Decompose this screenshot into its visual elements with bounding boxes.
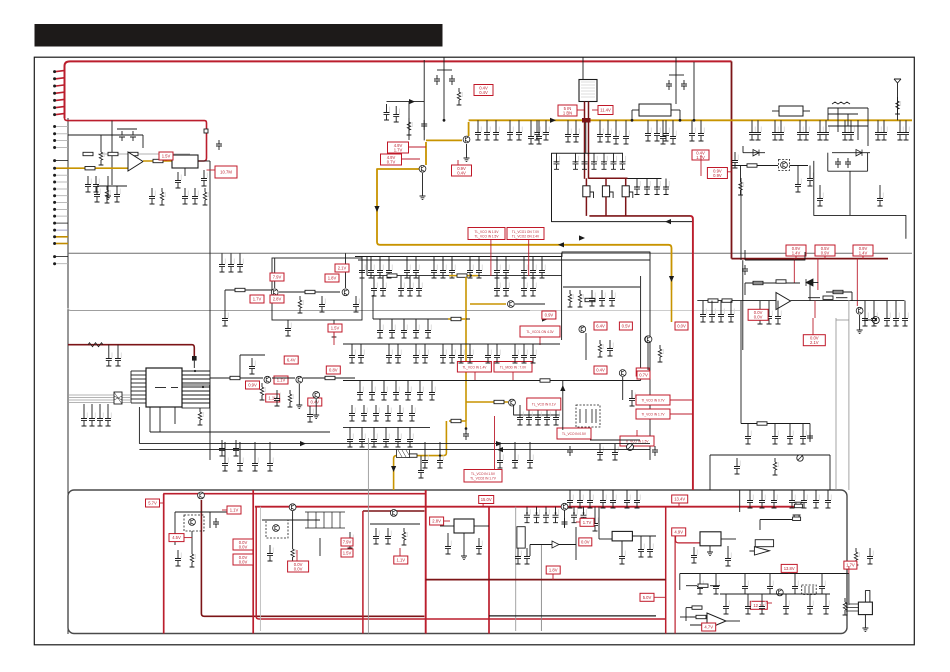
wire	[809, 166, 811, 171]
wire label lead	[402, 158, 421, 160]
wire	[886, 301, 888, 310]
wire	[274, 258, 276, 288]
wire label lead	[399, 548, 401, 556]
wire	[91, 404, 93, 410]
wire yellow AGC loop	[377, 172, 672, 290]
connector pin J13	[53, 167, 56, 170]
wire IC pin	[131, 402, 146, 404]
voltage label 2.8V	[270, 295, 284, 303]
capacitor C19	[219, 440, 225, 456]
wire yellow riser	[426, 140, 462, 165]
wire	[98, 153, 190, 155]
capacitor C1	[119, 131, 125, 141]
svg-text:2.8V: 2.8V	[432, 519, 441, 524]
transistor Q12	[645, 336, 652, 343]
svg-text:6.4V: 6.4V	[287, 358, 296, 363]
wire	[621, 541, 623, 548]
resistor R16	[457, 88, 463, 105]
connector pin J23	[53, 235, 56, 238]
capacitor C158	[429, 384, 435, 400]
wire	[495, 120, 497, 124]
capacitor C57	[613, 128, 619, 144]
capacitor C206	[445, 538, 451, 554]
capacitor C127	[416, 280, 422, 296]
capacitor C230	[771, 492, 777, 508]
wire	[514, 405, 560, 415]
capacitor C44	[554, 153, 560, 169]
wire	[747, 424, 749, 429]
wire label lead	[670, 413, 693, 415]
wire IC pin	[182, 382, 210, 384]
capacitor C233	[813, 492, 819, 508]
wire osc block frame	[552, 153, 693, 221]
capacitor C63	[645, 125, 651, 141]
ground	[862, 628, 868, 632]
op-amp U1	[128, 152, 143, 171]
wire label lead	[184, 537, 192, 539]
capacitor C75	[823, 124, 829, 140]
wire dark-red	[625, 178, 627, 186]
capacitor C108	[368, 262, 374, 278]
junction	[202, 386, 204, 388]
wire	[665, 120, 667, 125]
wire IC pin	[182, 370, 210, 372]
voltage label 0.9V|1.4V	[853, 245, 873, 256]
capacitor C43	[605, 126, 611, 142]
resistor R33	[451, 419, 461, 422]
junction	[646, 186, 648, 188]
wire	[761, 490, 763, 492]
junction bus	[693, 119, 696, 122]
wire	[649, 536, 651, 541]
wire	[382, 276, 384, 280]
wire	[442, 257, 444, 263]
wire	[159, 407, 161, 432]
signal arrow	[665, 219, 671, 224]
wire	[864, 319, 872, 321]
wire label lead	[207, 169, 216, 171]
signal arrow	[579, 235, 585, 240]
wire main audio line	[697, 300, 776, 302]
wire	[437, 69, 452, 71]
voltage label 0.8V	[326, 366, 340, 374]
wire	[669, 74, 684, 76]
connector pin J8	[53, 125, 56, 128]
resistor R42	[288, 390, 294, 407]
capacitor C141	[413, 347, 419, 363]
wire	[675, 57, 677, 104]
wire	[99, 404, 101, 410]
svg-text:TL_VCO IN 1.5V: TL_VCO IN 1.5V	[475, 234, 500, 238]
resistor R35	[568, 290, 574, 307]
wire dark-red	[605, 178, 607, 186]
capacitor C46	[582, 153, 588, 169]
wire red drop	[856, 259, 858, 306]
wire	[819, 185, 821, 190]
resistor R21	[823, 296, 833, 299]
wire gray top	[836, 319, 849, 321]
wire	[691, 120, 693, 125]
wire label lead	[862, 256, 864, 259]
ground	[296, 405, 302, 409]
capacitor C214	[515, 548, 521, 564]
wire	[693, 62, 695, 120]
wire	[439, 442, 441, 452]
resistor R4	[85, 167, 95, 170]
voltage label 1.5V	[328, 324, 342, 332]
capacitor C121	[530, 262, 536, 278]
signal arrow up	[560, 385, 565, 391]
signal arrow	[409, 99, 415, 104]
resistor R41	[260, 383, 266, 400]
svg-text:0.8V: 0.8V	[329, 368, 338, 373]
capacitor C119	[503, 262, 509, 278]
capacitor C21	[219, 256, 225, 272]
capacitor C116	[467, 262, 473, 278]
capacitor C38	[534, 124, 540, 140]
wire crimson to reg	[676, 536, 701, 543]
svg-text:1.7V: 1.7V	[583, 520, 592, 525]
connector pin J7	[53, 113, 56, 116]
wire	[799, 120, 801, 124]
wire	[773, 490, 775, 492]
wire	[867, 153, 869, 172]
wire	[240, 354, 265, 356]
connector pin J3	[53, 85, 56, 88]
junction olive	[465, 427, 468, 430]
voltage label 5.7V	[636, 368, 649, 376]
svg-text:1.7V: 1.7V	[253, 297, 262, 302]
wire	[749, 490, 751, 492]
junction bus	[584, 119, 587, 122]
svg-text:5.0V: 5.0V	[643, 595, 652, 600]
resistor R44	[190, 550, 196, 567]
wire	[509, 120, 511, 124]
title bar	[35, 24, 443, 47]
svg-text:5.7V: 5.7V	[148, 501, 157, 506]
voltage label 0.5V	[619, 322, 632, 330]
bottom section frame	[68, 490, 847, 634]
IF transformer T4 (dashed)	[576, 405, 600, 427]
wire dark-red vcc	[68, 345, 194, 356]
voltage label TI_VCO	[636, 395, 670, 405]
wire	[640, 536, 642, 541]
wire gray rail2	[848, 300, 850, 490]
wire	[599, 120, 601, 126]
resistor R3	[128, 152, 138, 155]
junction	[439, 454, 441, 456]
svg-text:0.4V: 0.4V	[457, 170, 466, 175]
wire	[585, 333, 587, 360]
wire	[366, 257, 368, 276]
svg-text:4.5V: 4.5V	[172, 535, 181, 540]
resistor R22	[708, 299, 718, 302]
resistor R20	[722, 299, 732, 302]
wire	[844, 120, 846, 124]
wire	[631, 110, 633, 120]
wire	[686, 585, 697, 587]
wire label lead	[296, 550, 298, 561]
wire	[905, 120, 907, 124]
capacitor C41	[573, 126, 579, 142]
capacitor C33	[475, 124, 481, 140]
capacitor C126	[407, 280, 413, 296]
resistor R27	[757, 422, 767, 425]
capacitor C88	[877, 190, 883, 206]
junction	[555, 512, 557, 514]
connector pin J11	[53, 146, 56, 149]
wire label lead	[409, 146, 427, 148]
wire	[744, 283, 746, 295]
connector pin J4	[53, 92, 56, 95]
capacitor C175	[535, 409, 541, 425]
transistor Q20	[390, 510, 397, 517]
transistor Q5	[781, 162, 788, 169]
capacitor C232	[801, 492, 807, 508]
wire	[518, 120, 520, 124]
wire	[849, 171, 851, 215]
voltage label 4.9V|1.7V	[388, 142, 409, 153]
wire label lead	[795, 256, 797, 259]
wire	[221, 253, 223, 256]
wire label lead	[482, 504, 484, 507]
capacitor C185	[249, 358, 255, 374]
capacitor C72	[797, 124, 803, 140]
wire label lead	[165, 160, 167, 161]
wire	[802, 424, 804, 429]
transistor Q14	[296, 376, 303, 383]
wire	[530, 120, 532, 128]
wire	[385, 427, 387, 431]
wire	[373, 427, 375, 431]
capacitor C156	[405, 384, 411, 400]
wire red drop	[490, 240, 492, 277]
wire gray rail cell2	[259, 507, 261, 631]
transistor Q17	[189, 519, 196, 526]
wire	[589, 490, 591, 492]
wire	[774, 120, 776, 124]
wire	[422, 173, 424, 196]
svg-text:1.4V: 1.4V	[859, 250, 868, 255]
wire	[625, 120, 627, 128]
resistor R26	[833, 290, 843, 293]
wire	[743, 152, 765, 154]
wire	[679, 110, 681, 120]
wire	[873, 301, 875, 310]
junction	[665, 186, 667, 188]
capacitor C191	[437, 452, 443, 468]
dashed pair box2	[266, 520, 288, 538]
capacitor C217	[592, 515, 598, 531]
svg-text:12.1V: 12.1V	[753, 603, 764, 608]
svg-text:4.7V: 4.7V	[704, 625, 713, 630]
wire	[433, 257, 435, 263]
capacitor C246	[759, 598, 765, 614]
wire	[797, 166, 799, 177]
capacitor C8	[114, 186, 120, 202]
trimmer VR2	[797, 455, 803, 461]
capacitor C159	[349, 405, 355, 421]
wire	[528, 405, 530, 409]
signal arrow	[391, 466, 396, 472]
svg-text:7.9V: 7.9V	[273, 275, 282, 280]
connector pin J24	[53, 242, 56, 245]
wire	[757, 120, 759, 124]
wire darkred bottom link	[201, 614, 424, 617]
voltage label 15.0V	[479, 496, 494, 504]
capacitor C51	[634, 179, 640, 195]
wire	[415, 319, 417, 322]
capacitor C135	[413, 322, 419, 338]
voltage label TI_VCO	[636, 409, 670, 419]
wire	[100, 135, 102, 148]
diode D3	[806, 279, 813, 286]
wire	[897, 90, 899, 120]
wire	[460, 344, 462, 347]
op-amp U10	[707, 613, 726, 629]
svg-text:1.7V: 1.7V	[394, 147, 403, 152]
capacitor C35	[493, 124, 499, 140]
capacitor C40	[565, 126, 571, 142]
capacitor C173	[517, 409, 523, 425]
resistor network box	[517, 527, 525, 548]
ground	[461, 556, 467, 560]
wire	[469, 344, 471, 347]
wire IC pin	[182, 390, 210, 392]
capacitor C172	[418, 462, 424, 478]
wire	[370, 523, 420, 525]
wire	[727, 546, 729, 550]
wire	[351, 344, 353, 347]
wire	[523, 276, 525, 280]
wire	[791, 490, 793, 492]
connector pin J25	[53, 255, 56, 258]
wire	[107, 404, 109, 410]
capacitor C198	[267, 455, 273, 471]
wire	[68, 134, 112, 136]
wire	[774, 424, 776, 429]
capacitor C215	[524, 548, 530, 564]
capacitor C242	[792, 578, 798, 594]
inductor L2	[779, 106, 803, 116]
capacitor C236	[691, 547, 697, 563]
wire	[569, 490, 571, 492]
wire	[150, 431, 330, 433]
transistor Q9	[579, 326, 586, 333]
resistor R18	[747, 164, 757, 167]
connector P2	[793, 515, 801, 521]
capacitor C47	[591, 153, 597, 169]
svg-text:15.0V: 15.0V	[481, 497, 492, 502]
IC U7 small regulator	[700, 532, 721, 546]
transistor Q19	[273, 525, 280, 532]
capacitor C90	[700, 306, 706, 322]
signal arrow	[542, 316, 548, 321]
capacitor C209	[534, 507, 540, 523]
connector pin J9	[53, 132, 56, 135]
capacitor C73	[803, 124, 809, 140]
capacitor C18	[105, 410, 111, 426]
capacitor C11	[192, 188, 198, 204]
capacitor C207	[476, 538, 482, 554]
svg-text:0.4V: 0.4V	[479, 90, 488, 95]
capacitor C221	[567, 492, 573, 508]
resistor R2	[108, 152, 118, 155]
wire	[388, 344, 390, 347]
ground	[313, 415, 319, 419]
capacitor C55	[528, 128, 534, 144]
capacitor C30	[393, 106, 399, 122]
wire label lead	[552, 574, 554, 580]
wire	[537, 405, 539, 409]
svg-text:1.8V: 1.8V	[328, 276, 337, 281]
wire	[395, 381, 397, 385]
voltage label 13.8V	[781, 564, 797, 572]
node test point	[204, 129, 208, 133]
capacitor C160	[361, 405, 367, 421]
junction	[656, 186, 658, 188]
wire	[122, 167, 128, 169]
wire IC pin	[131, 374, 146, 376]
svg-text:0.4V: 0.4V	[310, 400, 319, 405]
wire label lead	[812, 318, 814, 335]
wire	[789, 424, 791, 429]
capacitor C120	[521, 262, 527, 278]
wire	[575, 527, 577, 560]
wire yellow main bus	[469, 119, 912, 121]
junction	[584, 161, 586, 163]
capacitor C58	[623, 128, 629, 144]
wire	[443, 57, 445, 120]
svg-text:0.9V: 0.9V	[545, 313, 554, 318]
wire	[709, 546, 711, 552]
wire IC pin loop	[182, 385, 210, 408]
wire	[149, 407, 151, 432]
wire	[447, 533, 449, 538]
capacitor C50	[620, 153, 626, 169]
wire crimson rail I	[665, 507, 667, 634]
wire gray input	[68, 397, 131, 399]
resistor R28	[457, 274, 467, 277]
voltage label 1.7V	[844, 561, 857, 569]
capacitor C83	[795, 176, 801, 192]
capacitor C106	[807, 432, 813, 442]
wire	[496, 276, 498, 280]
wire darkred rail B	[200, 500, 202, 614]
capacitor C163	[397, 405, 403, 421]
op-amp U4	[776, 293, 791, 310]
voltage label 1.5V	[341, 549, 353, 557]
capacitor C109	[377, 262, 383, 278]
capacitor C239	[713, 578, 719, 594]
ceramic filter X1	[172, 155, 198, 168]
wire	[210, 377, 263, 379]
capacitor C61	[666, 80, 672, 90]
capacitor C155	[393, 384, 399, 400]
wire	[702, 301, 704, 306]
wire	[585, 122, 587, 153]
capacitor C177	[553, 409, 559, 425]
wire	[107, 176, 109, 196]
svg-text:2.1V: 2.1V	[338, 266, 347, 271]
junction bus	[443, 119, 446, 122]
capacitor C225	[610, 492, 616, 508]
capacitor C3	[85, 176, 91, 192]
wire IC pin	[131, 382, 146, 384]
svg-text:TL_VCO IN 1.5V: TL_VCO IN 1.5V	[471, 472, 496, 476]
svg-text:2.1V: 2.1V	[810, 340, 819, 345]
connector pin J16	[53, 188, 56, 191]
